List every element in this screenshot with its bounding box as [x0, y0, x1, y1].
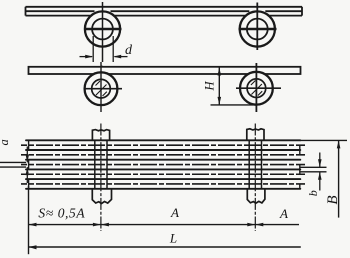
- pin 2 bottom end (washer): [247, 189, 265, 203]
- plate end stubs right: [299, 145, 301, 189]
- dimension H line: [218, 68, 220, 105]
- dimension a line upper: [26, 147, 28, 163]
- H arrow down: [218, 97, 222, 105]
- centerline vertical roller 2 left: [100, 62, 102, 112]
- svg-text:S≈ 0,5A: S≈ 0,5A: [38, 205, 85, 220]
- rail 2 (lower guide bar, side view): [29, 67, 301, 74]
- dimension B reference line: [300, 139, 347, 141]
- roller eye 2 right inner circle (bushing): [247, 79, 266, 98]
- dimension b reference lines: [300, 167, 327, 172]
- pin 1 shank edges: [95, 140, 107, 189]
- roller eye 2 left outer circle: [85, 72, 118, 105]
- centerline vertical roller 2 right: [255, 63, 257, 112]
- dimension row 1 line: [29, 224, 300, 226]
- dimension d extension lines: [93, 36, 113, 62]
- dimension H reference line at roller bottom: [211, 104, 257, 106]
- hatch in bushing 2 left: [96, 81, 107, 96]
- rail 1 (upper guide bar, side view): [26, 7, 303, 16]
- dimension a line lower: [26, 167, 28, 183]
- centerline horizontal roller 1 right: [239, 28, 277, 30]
- pin 2 top end (washer): [247, 129, 264, 140]
- hatch in bushing 2 right: [251, 81, 262, 96]
- roller eye 1 right inner circle (bushing): [247, 19, 268, 40]
- roller eye 1 left outer circle: [85, 11, 120, 46]
- roller eye 1 right outer circle: [240, 11, 275, 46]
- pin 2 shank edges: [249, 140, 261, 189]
- dimension b line lower: [319, 172, 321, 191]
- svg-text:H: H: [203, 81, 217, 92]
- pin 1 centerline: [100, 124, 102, 232]
- roller eye 2 right outer circle: [240, 72, 273, 105]
- roller eye 2 left inner circle (bushing): [92, 79, 111, 98]
- roller eye 1 left inner circle (bushing): [92, 19, 113, 40]
- svg-text:L: L: [169, 231, 177, 246]
- plate end stubs left: [28, 140, 30, 189]
- chain plates (plan view, 11 lines): [26, 140, 300, 189]
- svg-text:A: A: [279, 206, 288, 221]
- svg-text:b: b: [306, 190, 320, 196]
- centerline vertical roller 1 right: [256, 3, 258, 51]
- centerline vertical roller 1 left: [102, 2, 104, 62]
- dimension b line upper: [319, 153, 321, 168]
- pin 1 top end (washer): [92, 130, 109, 141]
- left extension line: [28, 186, 30, 254]
- load arrow on rail 2 (up arrowhead at roller centerline): [98, 67, 107, 75]
- svg-text:B: B: [325, 195, 341, 204]
- svg-text:d: d: [125, 43, 133, 58]
- centerline horizontal roller 2 right: [236, 87, 281, 89]
- H arrow up: [218, 68, 222, 76]
- arrows row 1: [29, 223, 37, 227]
- svg-text:A: A: [170, 205, 179, 220]
- dimension a reference lines: [0, 162, 26, 167]
- pin 1 bottom end (washer): [92, 189, 111, 204]
- dimension row 2 line (L): [29, 246, 301, 248]
- pin 2 centerline: [254, 124, 256, 232]
- dimension d line right part with arrow: [115, 56, 128, 58]
- dimension d line left part with arrow: [80, 56, 93, 58]
- svg-text:a: a: [0, 139, 11, 145]
- centerline horizontal roller 1 left: [84, 28, 122, 30]
- centerline horizontal roller 2 left: [84, 88, 123, 90]
- dimension B line: [338, 140, 340, 217]
